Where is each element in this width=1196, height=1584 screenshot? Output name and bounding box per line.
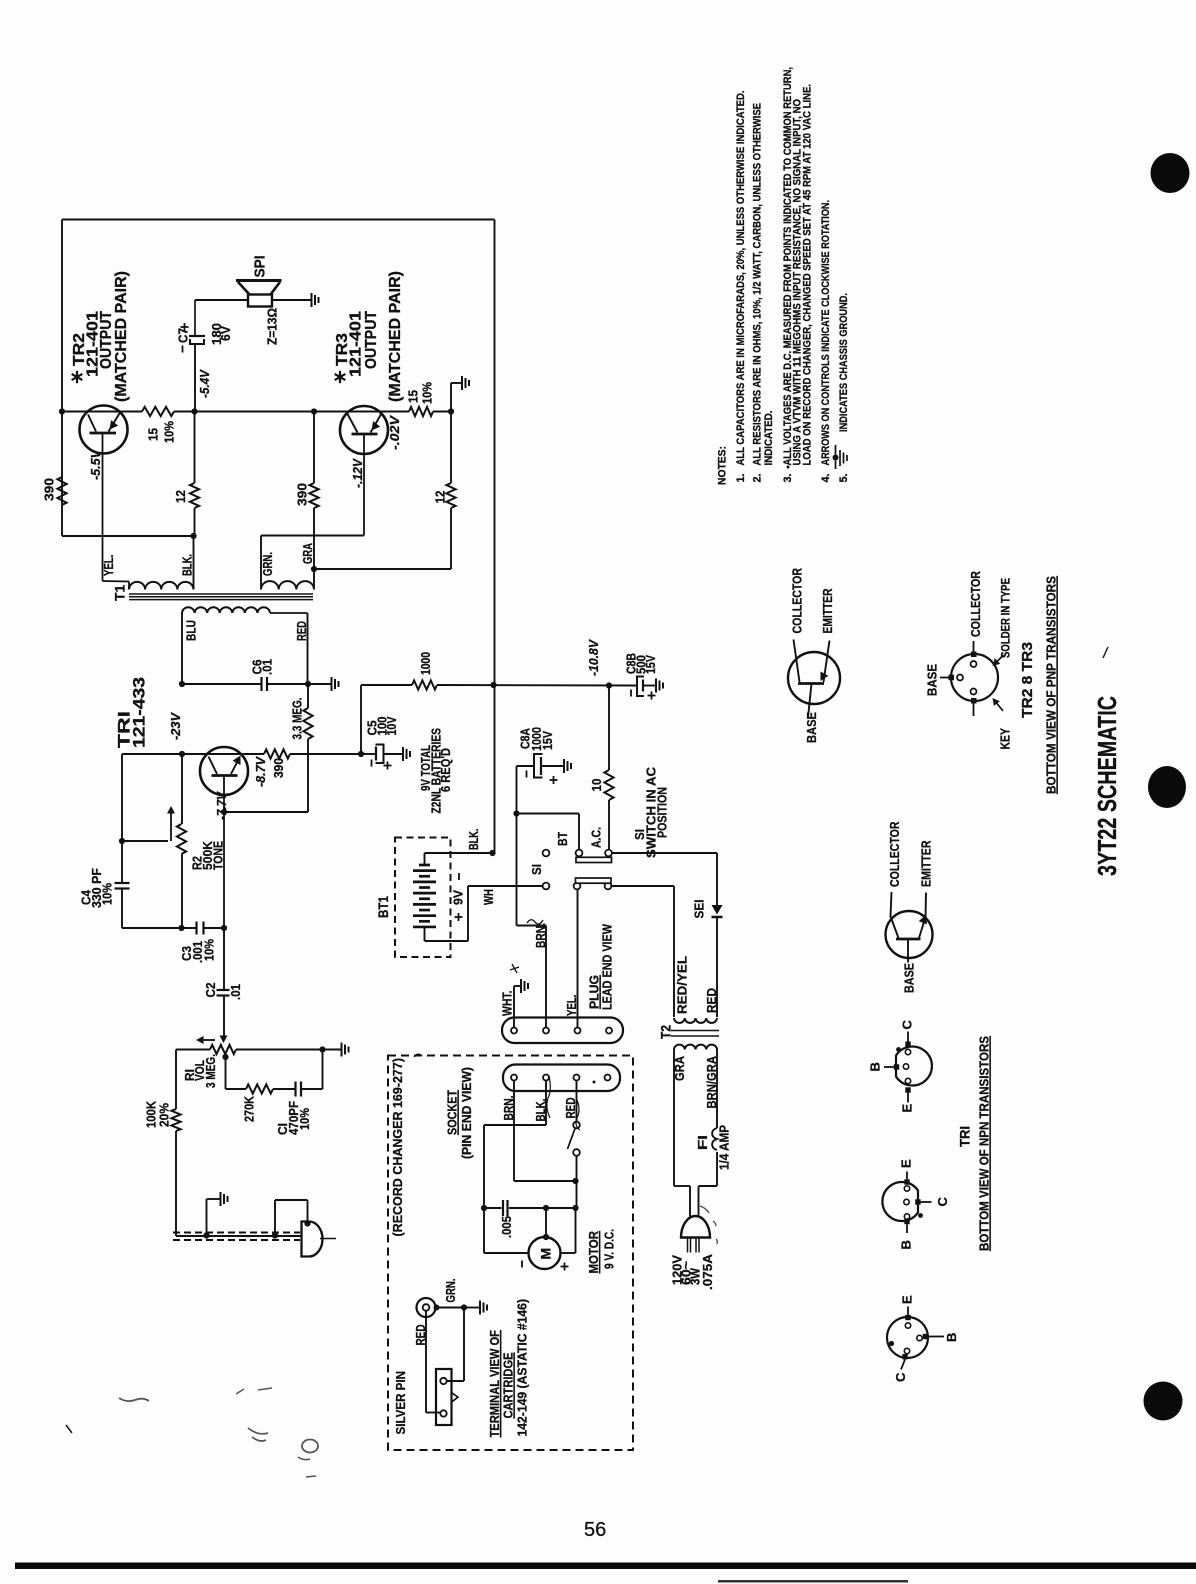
svg-text:-8.7V: -8.7V bbox=[253, 756, 268, 787]
node R1 right junction bbox=[319, 1046, 325, 1052]
wire y=411 emitter rail bbox=[62, 411, 142, 413]
speaker SP1 bbox=[236, 279, 282, 282]
svg-text:(RECORD CHANGER 169-277): (RECORD CHANGER 169-277) bbox=[390, 1058, 405, 1237]
svg-text:BLK.: BLK. bbox=[180, 554, 195, 576]
transistor TR2 121-401 bbox=[80, 406, 128, 454]
svg-text:-5.4V: -5.4V bbox=[197, 369, 212, 398]
svg-text:Z=13Ω: Z=13Ω bbox=[265, 308, 280, 345]
pickup cartridge bbox=[304, 1220, 310, 1226]
wire speaker to ground bbox=[272, 299, 311, 301]
ground (shield) bbox=[220, 1192, 222, 1206]
capacitor .005 bbox=[481, 1205, 487, 1211]
svg-text:C: C bbox=[893, 1372, 908, 1382]
T2 core bbox=[671, 1030, 719, 1032]
label TR3 designator bbox=[339, 371, 341, 383]
AC line plug bbox=[681, 1216, 710, 1238]
phono jack (silver pin) bbox=[417, 1298, 436, 1317]
svg-text:121-433: 121-433 bbox=[130, 677, 149, 748]
svg-text:A.C.: A.C. bbox=[589, 827, 604, 848]
svg-text:-.12V: -.12V bbox=[350, 458, 365, 488]
svg-text:6V: 6V bbox=[218, 326, 233, 341]
svg-text:EMITTER: EMITTER bbox=[919, 840, 934, 887]
svg-text:1.: 1. bbox=[735, 474, 747, 483]
svg-text:MOTOR: MOTOR bbox=[586, 1230, 601, 1273]
svg-text:T1: T1 bbox=[112, 584, 128, 601]
resistor 15 (TR2 emitter) bbox=[142, 407, 174, 416]
svg-text:2.: 2. bbox=[752, 474, 764, 483]
svg-text:15V: 15V bbox=[540, 731, 555, 750]
wire left rail bbox=[61, 220, 63, 537]
svg-text:390: 390 bbox=[42, 478, 57, 501]
svg-text:121-401: 121-401 bbox=[348, 311, 365, 377]
svg-text:POSITION: POSITION bbox=[655, 787, 670, 838]
svg-text:9V: 9V bbox=[451, 890, 466, 905]
svg-text:RED: RED bbox=[294, 621, 309, 641]
wire y=928 rail bbox=[122, 927, 197, 929]
svg-text:ALL RESISTORS ARE IN OHMS, 10%: ALL RESISTORS ARE IN OHMS, 10%, 1/2 WATT… bbox=[752, 103, 764, 466]
svg-text:KEY: KEY bbox=[998, 728, 1013, 750]
svg-text:B: B bbox=[899, 1240, 914, 1249]
node TR3 collector rail junction bbox=[311, 408, 317, 414]
resistor 15 (TR3 emitter) bbox=[409, 407, 433, 416]
node C6/3.3MEG junction bbox=[305, 681, 311, 687]
cartridge body bbox=[436, 1369, 452, 1425]
transformer T1 secondary BLU-RED coil bbox=[182, 607, 270, 613]
battery cells bbox=[419, 864, 430, 867]
switch (motor) contacts bbox=[576, 1081, 578, 1122]
wire C6 rail y=684 bbox=[182, 683, 261, 685]
svg-text:E: E bbox=[900, 1295, 915, 1304]
svg-text:56: 56 bbox=[584, 1519, 606, 1541]
wire y=536 (left) bbox=[62, 535, 194, 537]
battery BT1 dashed box bbox=[395, 838, 451, 958]
svg-text:COLLECTOR: COLLECTOR bbox=[887, 821, 902, 887]
ground (R1) bbox=[341, 1043, 343, 1057]
fuse F1 1/4 AMP bbox=[716, 1050, 718, 1129]
ground (GRN) bbox=[479, 1301, 481, 1315]
svg-text:10%: 10% bbox=[100, 883, 115, 905]
svg-text:RED/YEL: RED/YEL bbox=[675, 956, 690, 1014]
svg-text:C: C bbox=[935, 1197, 950, 1207]
wire BRN pin to C8A node bbox=[545, 926, 547, 1028]
node rail/box junction bbox=[490, 682, 496, 688]
capacitor C8B 500/15V electrolytic bbox=[637, 677, 644, 697]
svg-text:10%: 10% bbox=[202, 939, 217, 961]
svg-text:(MATCHED PAIR): (MATCHED PAIR) bbox=[113, 271, 130, 402]
diode SE1 selenium rectifier bbox=[712, 905, 723, 915]
svg-text:RED: RED bbox=[563, 1098, 578, 1119]
socket pin end view body bbox=[503, 1065, 620, 1092]
svg-text:-5.5V: -5.5V bbox=[88, 449, 103, 480]
svg-text:BT1: BT1 bbox=[375, 896, 391, 918]
svg-text:SI: SI bbox=[529, 864, 544, 875]
transformer T1 primary YEL-BLK coil bbox=[103, 580, 130, 583]
svg-text:10%: 10% bbox=[297, 1108, 312, 1130]
svg-text:SOCKET: SOCKET bbox=[445, 1090, 460, 1135]
TR1 bottom view 1 bbox=[896, 1047, 932, 1086]
svg-text:LEAD END VIEW: LEAD END VIEW bbox=[600, 923, 615, 1010]
svg-text:WH: WH bbox=[481, 889, 496, 905]
wire socket BLK bbox=[545, 1081, 547, 1126]
node TR1 emitter junction bbox=[221, 809, 227, 815]
transformer T1 primary GRN-GRA coil bbox=[261, 581, 314, 589]
wire pole2 to T2 bbox=[612, 885, 675, 887]
svg-text:10%: 10% bbox=[420, 382, 435, 404]
capacitor C2 .01 bbox=[223, 928, 225, 990]
svg-text:142-149 (ASTATIC #146): 142-149 (ASTATIC #146) bbox=[515, 1299, 530, 1437]
capacitor C1 470PF bbox=[294, 1082, 296, 1097]
svg-text:.075A: .075A bbox=[700, 1253, 715, 1290]
wire GRA to AC plug bbox=[673, 1050, 675, 1187]
transformer T2 primary coil bbox=[674, 1018, 717, 1023]
wire to speaker bbox=[195, 299, 248, 301]
capacitor C5 100/10V electrolytic bbox=[361, 753, 376, 755]
node pickup hot tap bbox=[272, 1232, 278, 1238]
svg-text:T2: T2 bbox=[658, 1025, 674, 1039]
resistor 390 (left rail) bbox=[57, 477, 66, 505]
wire -10.8V rail y=685 bbox=[360, 685, 362, 754]
wire base rail y=754 bbox=[122, 753, 264, 755]
svg-text:(PIN END VIEW): (PIN END VIEW) bbox=[459, 1067, 474, 1159]
svg-text:B: B bbox=[944, 1333, 959, 1342]
svg-text:20%: 20% bbox=[157, 1103, 172, 1127]
svg-text:RED: RED bbox=[704, 988, 719, 1013]
resistor 12 (right) bbox=[450, 412, 452, 484]
resistor 3.3 MEG bbox=[307, 684, 309, 708]
resistor 390 (GRA) bbox=[313, 412, 315, 484]
capacitor C4 330PF bbox=[115, 882, 130, 884]
svg-text:YEL.: YEL. bbox=[564, 995, 579, 1017]
node C5 junction bbox=[358, 751, 364, 757]
resistor 10 / wire to S1 bbox=[608, 686, 610, 771]
wire socket BRN bbox=[513, 1081, 515, 1182]
svg-text:OUTPUT: OUTPUT bbox=[363, 311, 380, 369]
svg-text:B: B bbox=[868, 1062, 883, 1071]
node C3/C2 junction bbox=[221, 925, 227, 931]
transistor TR1 121-433 bbox=[200, 747, 248, 795]
potentiometer R2 500K TONE bbox=[181, 754, 183, 824]
svg-text:BOTTOM VIEW OF NPN TRANSISTORS: BOTTOM VIEW OF NPN TRANSISTORS bbox=[977, 1036, 992, 1251]
resistor 12 (left) bbox=[194, 412, 196, 484]
wire C8A node to A.C. contact bbox=[517, 813, 580, 815]
wire to ground (TR3) bbox=[450, 383, 452, 412]
svg-text:SEI: SEI bbox=[692, 900, 707, 919]
ground (C5) bbox=[402, 747, 404, 761]
svg-text:CARTRIDGE: CARTRIDGE bbox=[501, 1352, 516, 1418]
svg-text:BRN.: BRN. bbox=[533, 923, 548, 948]
svg-text:ARROWS ON CONTROLS INDICATE CL: ARROWS ON CONTROLS INDICATE CLOCKWISE RO… bbox=[820, 200, 832, 466]
svg-text:270K: 270K bbox=[242, 1095, 257, 1122]
node BLU junction bbox=[179, 681, 185, 687]
svg-text:SPI: SPI bbox=[252, 256, 269, 278]
wire top rail of output stage box bbox=[62, 219, 495, 221]
svg-text:1/4 AMP: 1/4 AMP bbox=[717, 1125, 732, 1170]
svg-text:TONE: TONE bbox=[211, 841, 226, 870]
node motor top junction bbox=[543, 1205, 549, 1211]
svg-text:390: 390 bbox=[295, 483, 310, 506]
wire GRN to cartridge bbox=[463, 1308, 465, 1382]
svg-text:BASE: BASE bbox=[902, 963, 917, 993]
switch S1 pole 2 bbox=[543, 883, 550, 890]
svg-text:WHT.: WHT. bbox=[500, 991, 515, 1017]
plug pins bbox=[511, 1028, 517, 1034]
svg-text:12: 12 bbox=[173, 490, 188, 503]
node BLK junction bbox=[489, 850, 495, 856]
plug lead end view body bbox=[502, 1018, 623, 1044]
svg-text:COLLECTOR: COLLECTOR bbox=[968, 571, 983, 637]
capacitor C3 .001 bbox=[195, 922, 197, 935]
svg-text:10: 10 bbox=[589, 779, 604, 792]
switch S1 pole 1 (BT / A.C.) bbox=[543, 850, 550, 857]
wire right rail (to -10.8V node and S1) bbox=[494, 220, 496, 854]
svg-text:NOTES:: NOTES: bbox=[717, 446, 729, 485]
wire WHT pin to ground bbox=[513, 986, 515, 1028]
resistor 100K 20% bbox=[175, 1050, 177, 1110]
svg-text:EMITTER: EMITTER bbox=[820, 588, 835, 633]
svg-text:15V: 15V bbox=[643, 655, 658, 674]
svg-text:6 REQ'D: 6 REQ'D bbox=[439, 748, 453, 792]
svg-text:COLLECTOR: COLLECTOR bbox=[790, 568, 805, 634]
node TR3 emitter junction bbox=[448, 408, 454, 414]
punch hole dots bbox=[1151, 153, 1190, 193]
node GRA junction bbox=[311, 566, 317, 572]
svg-text:10V: 10V bbox=[384, 716, 399, 735]
svg-text:C7: C7 bbox=[176, 328, 191, 343]
svg-text:-10.8V: -10.8V bbox=[586, 639, 601, 676]
svg-text:-23V: -23V bbox=[168, 712, 183, 740]
wire RED to cartridge bbox=[425, 1311, 427, 1413]
svg-text:4.: 4. bbox=[820, 474, 832, 483]
bottom rule bbox=[15, 1563, 1196, 1570]
svg-text:5.: 5. bbox=[838, 474, 850, 483]
svg-text:GRN.: GRN. bbox=[260, 552, 275, 576]
transformer T2 secondary coil bbox=[674, 1045, 717, 1050]
stray pen marks and smudges bbox=[527, 920, 543, 924]
svg-text:M: M bbox=[538, 1248, 554, 1260]
svg-text:1000: 1000 bbox=[418, 652, 433, 675]
PNP transistor symbol bbox=[788, 652, 840, 704]
svg-text:3.: 3. bbox=[782, 474, 794, 483]
svg-text:-7.7V: -7.7V bbox=[214, 791, 229, 820]
svg-text:BT: BT bbox=[555, 832, 570, 846]
svg-text:E: E bbox=[900, 1104, 915, 1113]
wire YEL pin to S1 bbox=[577, 890, 579, 1028]
svg-text:3YT22 SCHEMATIC: 3YT22 SCHEMATIC bbox=[1092, 696, 1122, 876]
capacitor C8A 1000/15V electrolytic bbox=[513, 810, 519, 816]
node BLK junction bbox=[190, 533, 196, 539]
svg-text:LOAD ON RECORD CHANGER, CHANGE: LOAD ON RECORD CHANGER, CHANGED SPEED SE… bbox=[802, 84, 814, 466]
svg-text:GRA: GRA bbox=[300, 543, 315, 564]
svg-text:BLU: BLU bbox=[184, 620, 199, 641]
ground symbol (note 5) bbox=[835, 445, 837, 469]
resistor 1000 bbox=[412, 680, 437, 689]
svg-text:SOLDER IN TYPE: SOLDER IN TYPE bbox=[1001, 578, 1013, 658]
svg-text:INDICATES CHASSIS GROUND.: INDICATES CHASSIS GROUND. bbox=[838, 293, 850, 432]
NPN transistor symbol bbox=[886, 911, 933, 958]
TR1 bottom view 2 bbox=[882, 1182, 918, 1221]
svg-text:GRN.: GRN. bbox=[443, 1279, 458, 1303]
svg-text:ALL CAPACITORS ARE IN MICROFAR: ALL CAPACITORS ARE IN MICROFARADS, 20%, … bbox=[735, 91, 747, 466]
wire R1 wiper branch bbox=[225, 1057, 227, 1089]
svg-text:FI: FI bbox=[695, 1135, 710, 1150]
transistor TR3 121-401 bbox=[340, 406, 388, 454]
node TR2 emitter rail junction bbox=[191, 408, 197, 414]
node R2 top junction bbox=[179, 751, 185, 757]
battery polarity bbox=[458, 873, 460, 880]
svg-text:.01: .01 bbox=[260, 659, 275, 675]
rotation arrow (R1) bbox=[200, 1039, 215, 1041]
TR1 bottom view 3 bbox=[887, 1317, 928, 1358]
svg-text:10%: 10% bbox=[162, 421, 177, 443]
svg-text:C: C bbox=[900, 1020, 915, 1030]
svg-text:SILVER PIN: SILVER PIN bbox=[393, 1371, 408, 1435]
ground (TR3 emitter) bbox=[461, 376, 463, 390]
svg-text:15: 15 bbox=[406, 390, 421, 403]
svg-text:BLK.: BLK. bbox=[533, 1099, 548, 1122]
svg-text:(MATCHED PAIR): (MATCHED PAIR) bbox=[387, 271, 404, 402]
svg-text:15: 15 bbox=[146, 428, 161, 441]
ground (C8B) bbox=[655, 679, 657, 693]
svg-text:BLK.: BLK. bbox=[466, 829, 481, 851]
svg-text:-.02V: -.02V bbox=[387, 415, 402, 450]
svg-text:BRN.: BRN. bbox=[501, 1096, 516, 1121]
svg-text:3.3 MEG.: 3.3 MEG. bbox=[290, 698, 305, 740]
svg-text:.01: .01 bbox=[228, 984, 243, 1000]
resistor 270K bbox=[246, 1084, 273, 1093]
battery leads bbox=[424, 853, 426, 865]
ground (WHT) bbox=[520, 979, 522, 993]
node junction left rail / TR2 bbox=[59, 408, 65, 414]
motor M 9V DC bbox=[529, 1237, 561, 1269]
node BRN/switch junction bbox=[572, 1178, 578, 1184]
svg-text:12: 12 bbox=[433, 491, 448, 504]
svg-text:TRI: TRI bbox=[957, 1126, 973, 1147]
svg-text:C2: C2 bbox=[203, 983, 218, 998]
ground (speaker) bbox=[311, 293, 313, 307]
svg-text:E: E bbox=[899, 1159, 914, 1168]
svg-text:390: 390 bbox=[271, 758, 286, 778]
shielded lead dashed pair bbox=[173, 1232, 300, 1234]
node shield ground tap bbox=[203, 1232, 209, 1238]
wire GRA tap rail y=569 bbox=[314, 568, 451, 570]
capacitor C7 180/6V electrolytic bbox=[194, 344, 196, 412]
svg-text:9 V. D.C.: 9 V. D.C. bbox=[602, 1229, 617, 1269]
ground (C6 rail) bbox=[331, 677, 333, 691]
T1 core bbox=[129, 593, 313, 595]
record changer dashed box bbox=[388, 1056, 633, 1451]
svg-text:YEL.: YEL. bbox=[101, 555, 116, 577]
ground (C8A) bbox=[563, 759, 565, 773]
wire GRN to TR3 base bbox=[260, 536, 262, 590]
wire left branch x=122 bbox=[121, 754, 123, 883]
PNP bottom view bbox=[951, 654, 998, 701]
potentiometer R1 VOL 3 MEG bbox=[176, 1049, 210, 1051]
resistor 390 (TR1) bbox=[264, 749, 290, 758]
capacitor C6 .01 bbox=[260, 677, 262, 691]
wire SE1 branch bbox=[612, 852, 717, 854]
svg-text:INDICATED.: INDICATED. bbox=[763, 411, 775, 466]
label TR2 designator bbox=[76, 371, 78, 383]
svg-text:3 MEG.: 3 MEG. bbox=[203, 1054, 218, 1088]
node R2 bottom junction bbox=[178, 925, 184, 931]
svg-text:BOTTOM VIEW OF PNP TRANSISTORS: BOTTOM VIEW OF PNP TRANSISTORS bbox=[1044, 576, 1059, 794]
svg-text:TR2 8 TR3: TR2 8 TR3 bbox=[1019, 642, 1036, 718]
svg-text:BASE: BASE bbox=[804, 712, 819, 743]
svg-text:.005: .005 bbox=[499, 1216, 514, 1238]
svg-text:BASE: BASE bbox=[925, 664, 940, 696]
node C8B junction bbox=[606, 682, 612, 688]
